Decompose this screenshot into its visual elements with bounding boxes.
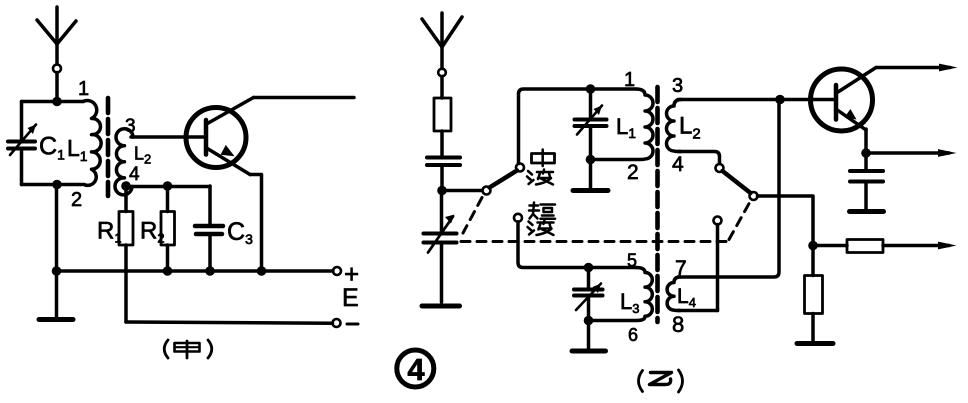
label 中波 — [527, 150, 555, 185]
node tank3 top — [584, 263, 594, 273]
node emitter-bus — [257, 266, 267, 276]
ground (left circuit) — [39, 271, 73, 320]
wire contact down to L4 pin8 — [716, 225, 720, 311]
ground (tank2) — [573, 160, 608, 191]
wire L2 bottom to contact — [678, 152, 720, 164]
antenna connector circle — [53, 65, 61, 73]
antenna series resistor — [434, 98, 451, 131]
variable capacitor (antenna tuning) — [424, 191, 457, 303]
wire pivot to corner down — [758, 196, 814, 246]
inductor L3 coil — [636, 268, 652, 321]
inductor L1 (right) coil — [636, 89, 653, 160]
wire L4 bottom to contact riser — [678, 309, 718, 313]
svg-text:3: 3 — [125, 116, 136, 137]
svg-text:8: 8 — [672, 312, 684, 337]
node tank2 bottom — [586, 155, 596, 165]
switch SW2 arm — [723, 171, 751, 193]
inductor L2 (right) coil — [667, 100, 682, 152]
svg-text:L2: L2 — [134, 144, 151, 167]
variable capacitor C (tank3) — [574, 268, 603, 321]
svg-text:E: E — [342, 284, 359, 312]
wire tank bottom node to bus — [55, 185, 59, 272]
node R2 bottom — [163, 266, 173, 276]
svg-text:4: 4 — [129, 164, 140, 185]
svg-text:L3: L3 — [620, 289, 639, 316]
wire to resistor — [440, 77, 444, 99]
node divider — [808, 241, 818, 251]
switch SW1 contact (短波) — [514, 214, 522, 222]
transformer core (dashed, right) — [655, 87, 660, 322]
svg-text:2: 2 — [627, 161, 639, 184]
node at tank bottom — [52, 180, 62, 190]
node tank2 top — [586, 84, 596, 94]
wire pin4 line — [126, 185, 210, 189]
ground (antenna branch) — [422, 304, 460, 309]
node antenna branch — [437, 186, 447, 196]
svg-text:1: 1 — [78, 78, 89, 100]
wire tank top — [22, 100, 83, 104]
node R2 top — [163, 181, 173, 191]
svg-text:1: 1 — [624, 69, 635, 91]
antenna (right circuit) — [422, 13, 462, 69]
switch SW1 pivot — [483, 187, 491, 195]
wire emitter down to bus — [250, 175, 262, 272]
wire tank3 bottom — [589, 319, 637, 323]
antenna series capacitor — [427, 158, 460, 166]
svg-text:L4: L4 — [677, 285, 696, 310]
wire tank left side — [20, 102, 24, 142]
transistor Q2 — [811, 68, 877, 132]
wire L4 top (pin7) to base node — [678, 100, 779, 278]
capacitor C3 — [195, 186, 223, 271]
svg-text:L1: L1 — [616, 114, 636, 141]
wire collector out with arrow — [876, 64, 958, 72]
label - — [347, 323, 358, 326]
node at tank top — [52, 97, 62, 107]
wire tank bottom — [22, 183, 83, 187]
ground (tank3) — [572, 321, 606, 352]
switch SW2 contact (L4 pin7 side) — [714, 217, 722, 225]
ground (emitter cap) — [850, 209, 884, 214]
wire L2 top to base — [131, 135, 205, 139]
svg-text:2: 2 — [71, 189, 82, 211]
label 短波 — [528, 203, 556, 236]
node emitter — [861, 148, 871, 158]
node C3 bottom — [205, 266, 215, 276]
inductor L1 coil — [83, 100, 101, 185]
transformer core (dashed, left) — [106, 98, 111, 196]
switch SW2 contact (L2 pin4) — [716, 164, 724, 172]
terminal + circle — [333, 267, 341, 275]
transistor Q1 — [186, 98, 254, 175]
wire base lead — [814, 98, 836, 102]
switch SW1 arm — [490, 171, 518, 188]
resistor R2 — [161, 186, 175, 271]
svg-text:6: 6 — [628, 325, 638, 345]
capacitor C1 (variable) plates — [8, 140, 35, 144]
antenna connector circle — [438, 69, 446, 77]
svg-text:L2: L2 — [679, 113, 701, 143]
svg-text:C1: C1 — [39, 133, 65, 163]
wire 短波 contact down and right to tank3 — [518, 222, 636, 268]
wire L2 top to base — [678, 98, 814, 102]
resistor (horizontal, output) — [813, 240, 957, 253]
terminal - circle — [333, 319, 341, 327]
capacitor C1 arrow — [10, 125, 36, 156]
node base line — [775, 95, 785, 105]
variable capacitor C (tank2) — [575, 89, 607, 160]
wire negative rail — [126, 322, 333, 323]
wire resistor to capacitor — [440, 131, 444, 157]
wire node to switch pivot — [442, 189, 482, 193]
emitter bypass capacitor — [850, 153, 883, 210]
wire antenna to tank top — [55, 73, 59, 102]
wire emitter out with arrow — [866, 149, 957, 157]
wire capacitor to node — [440, 165, 444, 191]
svg-text:3: 3 — [672, 75, 683, 97]
figure number circled 4 — [397, 350, 434, 387]
switch SW2 pivot — [750, 192, 758, 200]
svg-text:4: 4 — [672, 153, 684, 176]
node R1 top — [121, 181, 131, 191]
ground (bias resistor) — [797, 341, 833, 346]
label (乙) — [639, 370, 683, 392]
bus wire (positive rail) — [57, 269, 334, 273]
svg-text:C3: C3 — [227, 218, 253, 247]
wire tank2 bottom — [591, 158, 637, 162]
mechanical linkage (dashed) — [461, 198, 751, 242]
antenna (left circuit) — [37, 7, 76, 64]
wire collector out — [254, 96, 355, 100]
inductor L2 coil — [115, 129, 133, 195]
svg-text:4: 4 — [407, 352, 425, 387]
switch SW1 contact (中波) — [516, 164, 524, 172]
resistor R1 — [119, 186, 133, 322]
node bus left — [52, 266, 62, 276]
resistor (vertical, bias) — [805, 246, 823, 343]
svg-text:L1: L1 — [67, 135, 88, 164]
wire contact up to tank top — [519, 89, 637, 164]
node tank3 bottom — [584, 316, 594, 326]
wire emitter down — [864, 129, 868, 153]
label (甲) — [164, 340, 212, 358]
inductor L4 coil — [667, 277, 680, 311]
